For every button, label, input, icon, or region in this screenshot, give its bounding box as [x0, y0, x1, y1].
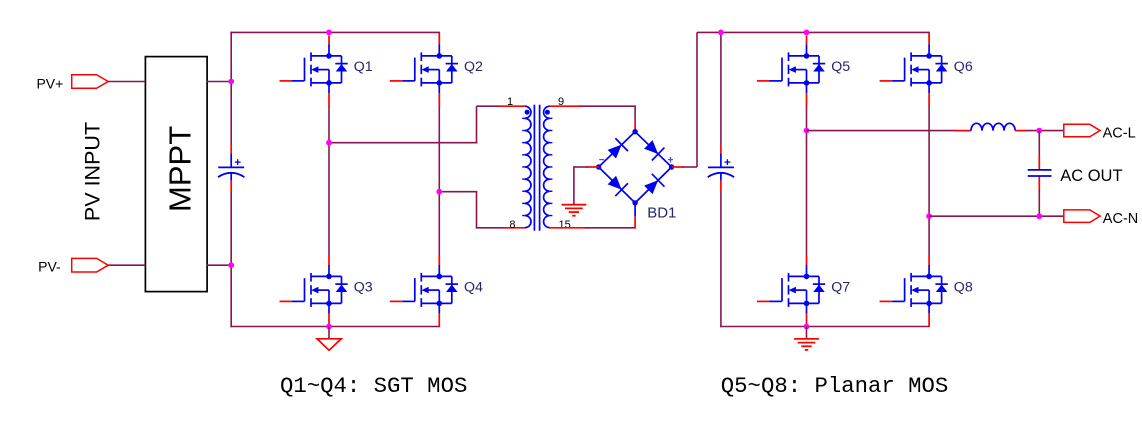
- wire inductor pin left: [955, 130, 972, 132]
- port AC-L: [1064, 124, 1100, 137]
- wire MPPT out-: [206, 264, 232, 266]
- port PV-: [72, 258, 109, 272]
- junction Q1 drain rail: [326, 30, 332, 36]
- ground power GND1: [328, 327, 330, 340]
- transistor Q3: [280, 256, 348, 327]
- wire inductor pin right: [1015, 130, 1027, 132]
- svg-text:Q1~Q4: SGT MOS: Q1~Q4: SGT MOS: [280, 373, 467, 399]
- svg-text:Q4: Q4: [464, 280, 483, 296]
- svg-text:8: 8: [509, 219, 515, 231]
- rectifier BD1 frame: [599, 132, 672, 203]
- ground earth GND3: [806, 327, 808, 339]
- wire dropper to pin8: [476, 192, 478, 229]
- junction Q5 drain rail: [804, 30, 810, 36]
- wire riser to pin1: [476, 106, 478, 143]
- wire pin1 stub: [500, 105, 526, 107]
- svg-text:Q1: Q1: [354, 59, 373, 75]
- wire BD1 minus to gnd: [574, 166, 588, 168]
- transistor Q5: [757, 36, 825, 107]
- svg-text:Q5~Q8: Planar MOS: Q5~Q8: Planar MOS: [721, 373, 948, 399]
- svg-text:Q8: Q8: [954, 280, 973, 296]
- ground earth GND2: [562, 205, 587, 216]
- wire C1 lower: [230, 192, 232, 327]
- transformer T1 core: [533, 105, 535, 231]
- wire pin15 stub: [549, 227, 586, 229]
- svg-text:PV+: PV+: [36, 75, 63, 91]
- transformer T1 polarity dot secondary: [545, 110, 550, 115]
- wire inductor to AC-L: [1026, 130, 1063, 132]
- wire phase A to transformer riser: [329, 142, 477, 144]
- label plus: [668, 159, 673, 161]
- svg-text:AC-L: AC-L: [1103, 125, 1136, 141]
- wire phase N to Q8 drain: [928, 216, 930, 256]
- svg-text:AC-N: AC-N: [1103, 211, 1138, 227]
- wire PV+ to MPPT: [108, 81, 145, 83]
- svg-text:Q6: Q6: [954, 59, 973, 75]
- transistor Q2: [390, 36, 458, 107]
- wire bottom rail 2: [720, 326, 930, 328]
- transformer T1 primary: [525, 106, 531, 227]
- wire PV- to MPPT: [108, 264, 145, 266]
- wire top rail 1: [230, 31, 440, 33]
- svg-text:AC OUT: AC OUT: [1060, 167, 1122, 185]
- transistor Q8: [880, 256, 948, 327]
- junction AC-N cap: [1036, 213, 1042, 219]
- wire BD1 minus pin: [587, 166, 599, 168]
- wire pin8 stub: [504, 227, 526, 229]
- junction PV- bus: [228, 262, 234, 268]
- wire Q6 drain stub: [928, 33, 930, 37]
- wire out cap lower: [1038, 190, 1040, 217]
- wire BD1 plus riser: [683, 166, 698, 168]
- svg-text:PV-: PV-: [38, 259, 61, 275]
- wire pin9 to bridge: [579, 105, 635, 107]
- wire bottom rail 1: [230, 326, 440, 328]
- inductor L1: [971, 123, 1015, 130]
- wire pin15 to bridge: [585, 227, 635, 229]
- svg-text:MPPT: MPPT: [162, 126, 197, 212]
- port PV+: [72, 75, 109, 89]
- junction Q7 source rail: [804, 324, 810, 330]
- wire Q5 source to phase L: [806, 105, 808, 131]
- capacitor C2: [708, 146, 734, 192]
- transformer T1 secondary: [544, 106, 550, 227]
- wire C1 upper: [230, 32, 232, 146]
- transistor Q6: [880, 36, 948, 107]
- wire phase N to AC-N: [929, 215, 1064, 217]
- wire out cap upper: [1038, 131, 1040, 157]
- rectifier BD1 diode bottom-right: [642, 174, 664, 196]
- transformer T1 polarity dot primary: [525, 110, 530, 115]
- wire Q1 source to phase A: [328, 105, 330, 143]
- rectifier BD1 vertex dots: [632, 129, 637, 134]
- label minus: [599, 159, 604, 161]
- wire C2 upper: [720, 32, 722, 146]
- junction C2 rail: [718, 30, 724, 36]
- rectifier BD1 diode top-right: [642, 138, 664, 160]
- block U-MPPT: [145, 57, 207, 292]
- junction phase L node: [804, 128, 810, 134]
- svg-text:BD1: BD1: [647, 205, 676, 222]
- svg-text:1: 1: [507, 96, 513, 108]
- transistor Q4: [390, 256, 458, 327]
- svg-text:Q7: Q7: [831, 280, 850, 296]
- capacitor C1: [218, 146, 244, 192]
- junction Q3 source rail: [326, 324, 332, 330]
- svg-text:Q2: Q2: [464, 59, 483, 75]
- wire Q2 source down: [438, 105, 440, 192]
- svg-text:15: 15: [559, 219, 571, 231]
- junction phase A: [326, 140, 332, 146]
- rectifier BD1 diode bottom-left: [606, 174, 628, 196]
- capacitor C3: [1038, 156, 1040, 170]
- wire Q6 source down: [928, 105, 930, 217]
- rectifier BD1 diode top-left: [606, 138, 628, 160]
- svg-text:Q3: Q3: [354, 280, 373, 296]
- junction phase N node: [926, 213, 932, 219]
- svg-text:PV INPUT: PV INPUT: [80, 122, 104, 221]
- wire C2 lower: [720, 192, 722, 327]
- wire pin9 stub: [549, 105, 580, 107]
- transistor Q1: [280, 36, 348, 107]
- port AC-N: [1064, 210, 1100, 223]
- wire BD1 plus pin: [672, 166, 684, 168]
- wire phase L to inductor: [807, 130, 956, 132]
- wire phase B to dropper: [439, 191, 477, 193]
- wire bridge bottom pin: [634, 216, 636, 228]
- transistor Q7: [757, 256, 825, 327]
- wire phase L to Q7 drain: [806, 131, 808, 257]
- junction phase B: [436, 189, 442, 195]
- wire phase A to Q3 drain: [328, 143, 330, 257]
- svg-text:Q5: Q5: [831, 59, 850, 75]
- junction PV+ bus: [228, 79, 234, 85]
- wire phase B to Q4 drain: [438, 192, 440, 257]
- wire bridge top pin: [634, 122, 636, 132]
- junction AC-L node: [1036, 128, 1042, 134]
- wire top rail 2: [697, 31, 930, 33]
- wire MPPT out+: [206, 81, 232, 83]
- wire Q2 drain stub: [438, 33, 440, 37]
